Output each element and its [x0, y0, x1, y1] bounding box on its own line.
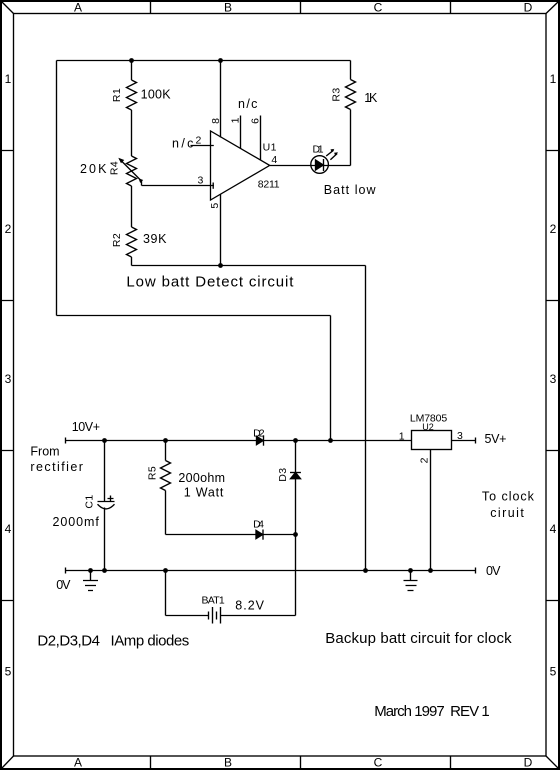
pin 8 wire — [220, 61, 222, 138]
diode D3 — [290, 472, 301, 478]
svg-text:2: 2 — [419, 457, 431, 463]
C1 plus sign — [108, 496, 114, 502]
pin 6 wire — [260, 116, 262, 161]
node D3 top — [293, 438, 298, 443]
svg-text:1: 1 — [5, 72, 12, 86]
svg-text:BAT1: BAT1 — [202, 594, 226, 606]
node pin8 top — [218, 58, 223, 63]
svg-text:R2: R2 — [111, 233, 123, 247]
svg-text:1: 1 — [399, 430, 405, 442]
svg-text:B: B — [224, 1, 232, 15]
svg-text:D2,D3,D4 IAmp diodes: D2,D3,D4 IAmp diodes — [37, 632, 189, 649]
node pin5 bottom — [218, 263, 223, 268]
wire R4 to R2 — [131, 186, 133, 227]
svg-text:2: 2 — [5, 222, 12, 236]
wire x330 drop to 10V rail — [330, 316, 332, 441]
svg-text:2: 2 — [196, 135, 202, 147]
svg-text:R5: R5 — [147, 466, 159, 480]
svg-text:3: 3 — [198, 175, 204, 187]
svg-text:100K: 100K — [141, 88, 172, 102]
svg-text:D4: D4 — [253, 518, 264, 530]
svg-text:R3: R3 — [331, 87, 343, 101]
node link bottom — [363, 568, 368, 573]
resistor R1 — [127, 61, 137, 157]
svg-text:D: D — [524, 756, 533, 770]
svg-text:C1: C1 — [84, 494, 96, 508]
node R1 top — [129, 58, 134, 63]
wire battery right vertical — [295, 535, 297, 616]
ground left — [83, 571, 98, 591]
resistor R3 — [346, 61, 356, 166]
svg-text:D1: D1 — [313, 144, 325, 156]
svg-text:5: 5 — [550, 665, 557, 679]
svg-text:A: A — [74, 1, 82, 15]
svg-text:20K: 20K — [80, 162, 107, 176]
svg-text:3: 3 — [5, 372, 12, 386]
svg-text:4: 4 — [550, 522, 557, 536]
svg-text:March 1997 REV 1: March 1997 REV 1 — [374, 703, 490, 720]
svg-text:D: D — [524, 1, 533, 15]
svg-text:R1: R1 — [111, 88, 123, 102]
potentiometer R4 — [118, 156, 143, 186]
ground right — [404, 571, 418, 591]
svg-text:5: 5 — [209, 202, 221, 208]
svg-text:C: C — [374, 756, 383, 770]
svg-text:8211: 8211 — [258, 178, 280, 190]
node pin2 bottom — [428, 568, 433, 573]
wire D3 branch vertical — [295, 441, 297, 535]
node R5 top — [163, 438, 168, 443]
svg-text:1K: 1K — [364, 91, 378, 105]
svg-text:4: 4 — [271, 154, 277, 166]
node ground left — [88, 568, 93, 573]
wire x365 drop to 0V rail — [365, 266, 367, 571]
capacitor C1 — [98, 441, 115, 571]
svg-text:U2: U2 — [422, 422, 434, 432]
svg-text:5V+: 5V+ — [485, 432, 508, 446]
node ground right — [408, 568, 413, 573]
svg-text:200ohm: 200ohm — [178, 471, 225, 485]
terminal tick 0V left — [65, 568, 67, 574]
pin 5 wire — [220, 194, 222, 265]
node battery left — [163, 568, 168, 573]
svg-text:1 Watt: 1 Watt — [184, 485, 224, 499]
diode D2 — [257, 435, 264, 445]
svg-text:0V: 0V — [56, 578, 71, 592]
op-amp U1 triangle — [211, 131, 270, 200]
wire op-amp output — [270, 165, 351, 167]
svg-text:1: 1 — [230, 117, 242, 123]
terminal tick 0V right — [475, 568, 477, 574]
terminal tick 10V — [65, 438, 67, 444]
LED D1 — [311, 149, 338, 173]
svg-text:3: 3 — [550, 372, 557, 386]
svg-text:5: 5 — [5, 665, 12, 679]
svg-text:R4: R4 — [109, 161, 121, 175]
svg-text:1: 1 — [550, 72, 557, 86]
wire R2 bottom rail — [132, 265, 366, 267]
terminal tick 5V — [475, 438, 477, 444]
op-amp plus sign — [212, 183, 214, 189]
node C1 bottom — [102, 568, 107, 573]
svg-text:Backup batt circuit for clock: Backup batt circuit for clock — [325, 630, 512, 647]
svg-text:D2: D2 — [253, 428, 265, 440]
wire pin 3 7805 — [452, 440, 476, 442]
svg-text:A: A — [74, 756, 82, 770]
svg-text:n/c: n/c — [238, 97, 258, 111]
wire battery left vertical — [165, 571, 167, 616]
resistor R2 — [127, 227, 137, 266]
resistor R5 — [161, 441, 171, 535]
svg-text:3: 3 — [457, 430, 463, 442]
svg-text:D3: D3 — [277, 467, 289, 481]
svg-text:8.2V: 8.2V — [235, 599, 264, 613]
svg-text:6: 6 — [250, 118, 262, 124]
pin 3 wire — [142, 185, 214, 187]
svg-text:rectifier: rectifier — [30, 460, 83, 474]
svg-text:n/c: n/c — [172, 136, 194, 150]
svg-text:C: C — [374, 1, 383, 15]
svg-text:To clock: To clock — [482, 490, 535, 504]
svg-text:From: From — [30, 445, 60, 459]
svg-text:8: 8 — [210, 118, 222, 124]
diode D4 — [256, 530, 263, 540]
svg-text:2: 2 — [550, 222, 557, 236]
wire pin 2 7805 — [430, 450, 432, 571]
node D4 right — [293, 532, 298, 537]
svg-text:U1: U1 — [263, 141, 277, 153]
battery BAT1 — [166, 607, 296, 624]
svg-text:39K: 39K — [143, 232, 167, 246]
svg-text:10V+: 10V+ — [72, 420, 101, 434]
pin 2 wire — [191, 145, 214, 147]
wire 10V rail — [66, 440, 412, 442]
wire top rail — [57, 60, 351, 62]
svg-text:ciruit: ciruit — [490, 506, 524, 520]
svg-text:Batt low: Batt low — [324, 183, 377, 197]
regulator U2 LM7805 box — [412, 431, 452, 450]
wire left vertical — [56, 61, 58, 316]
svg-text:B: B — [224, 756, 232, 770]
svg-text:4: 4 — [5, 522, 12, 536]
node C1 top — [102, 438, 107, 443]
wire 0V rail — [66, 570, 476, 572]
wire lower link to bottom circuit — [57, 315, 331, 317]
svg-text:0V: 0V — [486, 564, 501, 578]
node link top — [328, 438, 333, 443]
svg-text:Low batt Detect circuit: Low batt Detect circuit — [126, 274, 294, 291]
wire R5 to D4 — [166, 534, 296, 536]
svg-text:2000mf: 2000mf — [53, 515, 100, 529]
pin 1 wire — [240, 116, 242, 149]
